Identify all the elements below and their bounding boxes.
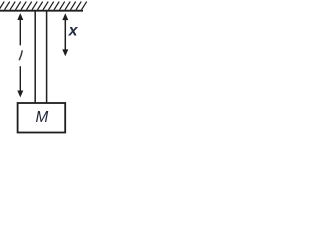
ceiling line — [0, 10, 83, 12]
background — [0, 0, 88, 136]
physics diagram: mass M hanging from ceiling by two strings, dimensions l and x — [0, 0, 88, 136]
block M (box) — [18, 103, 66, 133]
dimension arrow x (right, double arrow) — [62, 13, 68, 56]
svg-text:M: M — [36, 109, 49, 126]
string 2 (right) — [46, 11, 48, 102]
svg-text:x: x — [68, 23, 79, 40]
dimension line l (left, double arrow with gap for label) — [17, 13, 23, 97]
label l (italic ell in gap of dimension line) — [19, 50, 22, 60]
ceiling hatching — [0, 2, 87, 10]
string 1 (left) — [34, 11, 36, 102]
